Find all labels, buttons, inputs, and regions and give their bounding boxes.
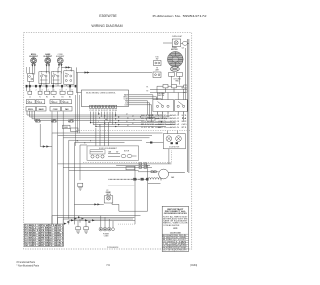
svg-text:GD GN: GD GN — [25, 245, 34, 247]
relay K1 — [27, 67, 34, 81]
svg-text:Publication No. 5995447172: Publication No. 5995447172 — [153, 14, 208, 18]
relay K2 — [39, 72, 50, 84]
svg-text:P4: P4 — [98, 110, 100, 112]
latch switch — [104, 196, 113, 203]
switch row boxes — [26, 100, 71, 104]
bake element — [45, 58, 51, 64]
convection element label — [56, 54, 65, 58]
svg-text:E30EW75E: E30EW75E — [99, 14, 117, 18]
svg-text:P2: P2 — [92, 110, 94, 112]
fuse row box 2 — [172, 85, 177, 88]
broil element leads — [32, 63, 36, 68]
bus connector arrows — [115, 114, 120, 127]
svg-text:GN GREEN: GN GREEN — [163, 241, 174, 243]
svg-text:BL BLUE: BL BLUE — [175, 235, 186, 237]
wire light to bus — [163, 42, 189, 44]
right rows wire stubs — [155, 115, 171, 127]
drops to door lock — [96, 120, 109, 146]
color code rows — [163, 234, 187, 252]
svg-text:CONV: CONV — [124, 98, 128, 100]
svg-text:L1: L1 — [182, 115, 187, 117]
svg-text:BROIL: BROIL — [123, 96, 128, 98]
terminal block T1 — [28, 91, 32, 94]
svg-text:OVEN LIGHT: OVEN LIGHT — [172, 36, 182, 38]
lock inner box — [90, 150, 105, 154]
legend title — [164, 208, 187, 215]
lock contacts — [90, 152, 137, 158]
svg-text:16: 16 — [127, 117, 129, 119]
cooling fan wire — [138, 171, 159, 173]
svg-text:MOTOR: MOTOR — [124, 150, 129, 152]
lock wire end connector — [147, 165, 149, 167]
svg-text:W WHITE: W WHITE — [163, 237, 174, 239]
svg-text:DLB: DLB — [29, 102, 32, 104]
svg-text:SW-2: SW-2 — [170, 118, 179, 120]
ground lug 2 — [78, 221, 88, 234]
svg-text:RELAY: RELAY — [35, 121, 42, 124]
dlb feed wire — [40, 124, 52, 147]
fuse row box 1 — [163, 85, 168, 88]
svg-text:14: 14 — [133, 119, 135, 121]
svg-text:F2 16: F2 16 — [49, 245, 57, 247]
hi-limit box — [175, 100, 188, 112]
component name labels — [35, 119, 75, 124]
wire into control left — [76, 67, 81, 92]
svg-text:MOTOR: MOTOR — [171, 49, 178, 51]
coil connector 2 — [141, 178, 144, 180]
svg-text:SWITCH: SWITCH — [158, 95, 165, 97]
relay K4 — [64, 71, 74, 85]
bus fuse tick 2 — [184, 89, 188, 92]
svg-text:BK: BK — [77, 141, 79, 143]
svg-text:R-W RED/WH: R-W RED/WH — [175, 250, 186, 252]
svg-text:(0134): (0134) — [190, 264, 197, 267]
terminal labels row — [29, 96, 71, 98]
svg-text:L2: L2 — [182, 121, 187, 123]
svg-text:LOCK MOTOR: LOCK MOTOR — [169, 147, 180, 149]
cooling fan motor — [159, 169, 185, 180]
svg-text:P3: P3 — [95, 110, 97, 112]
svg-text:W-BK WH/BK: W-BK WH/BK — [175, 248, 186, 250]
coil connector 3 — [146, 178, 148, 180]
latch feed wire — [74, 204, 103, 206]
switch row text — [29, 101, 70, 104]
svg-text:GN-Y GN/YEL: GN-Y GN/YEL — [163, 250, 174, 252]
terminal block T2 — [38, 91, 42, 94]
legend box — [162, 206, 188, 251]
svg-text:H2: H2 — [53, 96, 55, 98]
right bus N — [188, 39, 190, 173]
svg-text:GROUNDING DEVICES: GROUNDING DEVICES — [164, 213, 187, 215]
oven sensor boxes — [63, 125, 79, 131]
svg-text:DLB: DLB — [39, 102, 42, 104]
svg-text:SW-1: SW-1 — [170, 115, 179, 117]
svg-text:P#316080293: P#316080293 — [107, 247, 118, 249]
lower bus wires — [52, 133, 163, 145]
terminal block T3 — [45, 91, 50, 94]
svg-text:N: N — [182, 118, 187, 120]
thermal switch box — [153, 100, 174, 112]
lock wire connectors — [126, 163, 147, 170]
convection fan motor — [168, 52, 184, 68]
terminal pin labels — [90, 109, 117, 112]
svg-text:14: 14 — [132, 115, 134, 117]
left component stack text — [155, 57, 159, 61]
latch wires — [112, 166, 148, 212]
broil element label — [29, 54, 38, 58]
lock feed labels — [77, 141, 92, 145]
dashed boundary lower — [83, 150, 172, 163]
thermostat label right — [157, 92, 165, 97]
terminal pin row — [30, 90, 73, 92]
convection element — [57, 58, 63, 64]
svg-text:G-8: G-8 — [182, 48, 185, 50]
oven light box — [172, 39, 180, 47]
bake element label — [44, 53, 53, 58]
dashed section boundary — [76, 130, 192, 132]
svg-text:BR: BR — [105, 119, 107, 121]
svg-text:P1: P1 — [182, 127, 187, 129]
color code table — [162, 234, 188, 251]
svg-text:SW-5: SW-5 — [170, 127, 179, 129]
svg-text:P7: P7 — [106, 110, 108, 112]
svg-text:* Non-Illustrated Parts: * Non-Illustrated Parts — [17, 264, 40, 267]
svg-text:NOTE: NOTE — [173, 228, 177, 230]
svg-text:PE WH: PE WH — [41, 245, 49, 247]
svg-text:12: 12 — [126, 114, 128, 116]
svg-text:F1: F1 — [147, 87, 149, 89]
bundle dashed tail — [118, 223, 135, 225]
svg-text:F2: F2 — [147, 91, 149, 93]
heating coil element — [109, 178, 162, 184]
svg-text:16: 16 — [132, 123, 134, 125]
bundle connector arrows — [64, 216, 95, 224]
terminal block T5 — [60, 91, 65, 94]
wire conv to relay — [63, 67, 71, 72]
svg-text:PR PURPLE: PR PURPLE — [163, 248, 174, 250]
lower wire bundle — [52, 216, 141, 225]
control pin wires to right — [129, 95, 162, 122]
svg-text:P8: P8 — [109, 110, 111, 112]
svg-text:18: 18 — [126, 121, 128, 123]
svg-text:V: V — [98, 121, 99, 123]
dashed stub — [109, 185, 136, 187]
svg-text:# Functional Parts: # Functional Parts — [17, 261, 36, 264]
svg-text:CONN: CONN — [104, 236, 109, 238]
left stack thermostat box — [154, 61, 162, 66]
svg-text:BROIL: BROIL — [28, 109, 33, 111]
oven light connector — [183, 41, 188, 45]
svg-text:BR BROWN: BR BROWN — [175, 246, 186, 248]
door lock assembly box — [87, 146, 139, 160]
cabinet dashed frame — [24, 33, 192, 249]
ground cluster mid — [78, 183, 83, 190]
svg-text:ELECTRONIC OVEN CONTROL: ELECTRONIC OVEN CONTROL — [86, 93, 116, 95]
svg-text:COLOR CODE: COLOR CODE — [170, 232, 181, 234]
left stack text2 — [155, 68, 159, 72]
wire bus under control — [27, 111, 176, 127]
relay pin text — [41, 70, 71, 88]
svg-text:P PINK: P PINK — [175, 243, 186, 245]
ground lug 1 — [76, 227, 81, 234]
svg-text:R: R — [90, 141, 91, 143]
connector plug label — [103, 234, 110, 238]
svg-text:Y YELLOW: Y YELLOW — [163, 243, 175, 245]
wire connector blocks — [26, 85, 77, 88]
svg-text:B2: B2 — [69, 96, 71, 98]
svg-text:DLB: DLB — [125, 102, 128, 104]
lock motor leads — [169, 149, 179, 164]
lock motor feed line — [146, 142, 163, 144]
convection fan motor label — [171, 47, 178, 51]
svg-text:WH 9: WH 9 — [57, 245, 63, 247]
svg-text:V-12 LITE: V-12 LITE — [141, 127, 154, 129]
bottom left table — [24, 224, 63, 246]
svg-text:P2: P2 — [107, 190, 109, 192]
broil element — [31, 58, 37, 64]
svg-text:POWER: POWER — [103, 234, 110, 236]
svg-text:P5: P5 — [101, 110, 103, 112]
fuse row wires — [150, 86, 185, 92]
motor lower connectors — [158, 73, 184, 122]
svg-text:P1: P1 — [90, 110, 92, 112]
footer functional parts — [17, 261, 40, 267]
lock inner labels — [108, 150, 129, 153]
svg-text:LIMIT: LIMIT — [155, 69, 159, 71]
svg-text:18: 18 — [127, 125, 129, 127]
wire conv arrow to right cluster — [76, 72, 152, 74]
right bus L1 — [186, 39, 188, 172]
junction bus wire — [27, 86, 77, 91]
terminal block T6 — [68, 91, 73, 94]
relay label boxes — [26, 107, 72, 112]
right rows small box — [147, 118, 155, 121]
svg-text:P9: P9 — [112, 110, 114, 112]
wire gauge labels — [98, 114, 135, 128]
right bus L2 — [185, 48, 187, 100]
control terminal squares — [90, 105, 117, 108]
svg-text:H1: H1 — [46, 96, 48, 98]
motor mount — [170, 67, 179, 72]
convection element leads — [58, 63, 63, 68]
coil connector 1 — [134, 178, 137, 180]
table text — [25, 224, 65, 247]
svg-text:BAKE: BAKE — [39, 108, 45, 111]
svg-text:RELAY: RELAY — [68, 121, 75, 124]
bundle risers — [52, 111, 63, 137]
lock motor connector blocks — [150, 142, 178, 145]
right rows labels — [141, 115, 188, 129]
svg-text:CONV: CONV — [53, 109, 59, 111]
wire node dots — [90, 114, 162, 127]
svg-text:R: R — [99, 117, 100, 119]
svg-text:SENS: SENS — [64, 127, 68, 129]
svg-text:COOLING: COOLING — [173, 79, 181, 81]
electronic oven control box — [81, 90, 128, 107]
door lock motor box — [163, 131, 185, 149]
switch contact circles — [28, 101, 64, 103]
element lead wires into relays — [30, 67, 71, 86]
bake element leads — [46, 63, 50, 68]
svg-text:V VIOLET: V VIOLET — [175, 239, 186, 241]
connector plug circles — [99, 216, 114, 231]
legend paragraph — [163, 215, 189, 226]
svg-text:B1: B1 — [62, 96, 64, 98]
left stack component — [153, 72, 161, 78]
relay label text — [28, 108, 69, 111]
svg-text:P6: P6 — [104, 110, 106, 112]
svg-text:L1: L1 — [29, 96, 31, 98]
lock wires — [58, 164, 172, 224]
svg-text:BK: BK — [98, 114, 100, 116]
latch switch label — [106, 192, 112, 196]
control pin labels — [123, 93, 128, 106]
left feeder wires — [76, 73, 80, 146]
wire bundle verticals — [52, 133, 80, 224]
bus fuse tick 1 — [184, 85, 188, 88]
svg-text:WIRING DIAGRAM: WIRING DIAGRAM — [91, 24, 122, 28]
relay K3 — [51, 72, 61, 84]
terminal block T4 — [51, 91, 56, 94]
motor connector labels — [173, 79, 181, 83]
